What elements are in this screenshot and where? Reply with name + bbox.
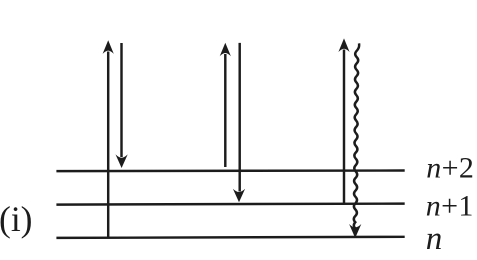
arrowhead up of A3 <box>338 38 349 52</box>
arrowhead down of E2 at level n+1 <box>233 189 245 203</box>
absorption arrow A2 shaft (n+2 to continuum) <box>224 54 226 167</box>
svg-text:n+1: n+1 <box>426 190 474 223</box>
level line n <box>56 237 404 238</box>
level line n+2 <box>56 169 404 172</box>
arrowhead up of A2 <box>220 43 231 57</box>
stimulated emission arrow E1 shaft (down to n+2) <box>120 43 122 157</box>
arrowhead up of A1 <box>103 40 114 54</box>
emission arrow E2 shaft (down to n+1) <box>238 43 240 192</box>
wavy photon-emission arrow shaft (down to n) <box>354 43 359 228</box>
level line n+1 <box>56 204 404 205</box>
absorption arrow A1 shaft (n to continuum) <box>107 52 109 238</box>
absorption arrow A3 shaft (n+1 to continuum) <box>343 50 345 205</box>
svg-text:(i): (i) <box>0 199 33 239</box>
arrowhead down of E1 at level n+2 <box>116 154 128 168</box>
svg-text:n: n <box>426 221 443 257</box>
svg-text:n+2: n+2 <box>426 152 474 185</box>
arrowhead down of wavy photon arrow at level n <box>349 224 361 238</box>
